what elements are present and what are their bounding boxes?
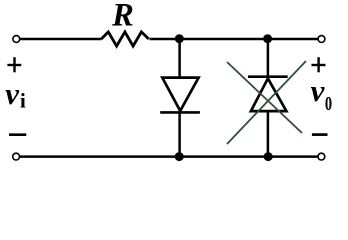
wire: top-left segment (terminal to resistor) <box>20 38 102 41</box>
diode D1 (left branch, cathode down) <box>160 39 200 157</box>
svg-text:i: i <box>20 88 26 112</box>
junction dot: node A bottom <box>175 152 184 161</box>
terminal: bottom-left input <box>13 153 20 160</box>
label: minus (output) <box>312 133 328 136</box>
resistor R <box>101 32 148 46</box>
svg-text:v: v <box>5 76 20 111</box>
label: plus (input) <box>7 57 21 72</box>
wire: bottom segment <box>19 155 318 158</box>
label: minus (input) <box>9 133 26 136</box>
terminal: top-right output <box>318 36 325 43</box>
terminal: top-left input <box>13 36 20 43</box>
svg-text:v: v <box>311 73 326 108</box>
annotation: green X stroke 1 (over D2) <box>227 62 302 133</box>
label: plus (output) <box>312 57 326 72</box>
junction dot: node A top (left branch) <box>175 34 184 43</box>
svg-text:0: 0 <box>325 93 332 115</box>
wire: top-right segment (resistor to right terminal, through nodes) <box>150 38 319 41</box>
svg-text:R: R <box>111 0 134 34</box>
terminal: bottom-right output <box>318 153 325 160</box>
junction dot: node B top (right branch) <box>263 34 272 43</box>
annotation: green X stroke 2 (over D2) <box>227 61 306 144</box>
junction dot: node B bottom <box>264 152 273 161</box>
diode D2 (right branch, cathode up) <box>248 39 288 157</box>
